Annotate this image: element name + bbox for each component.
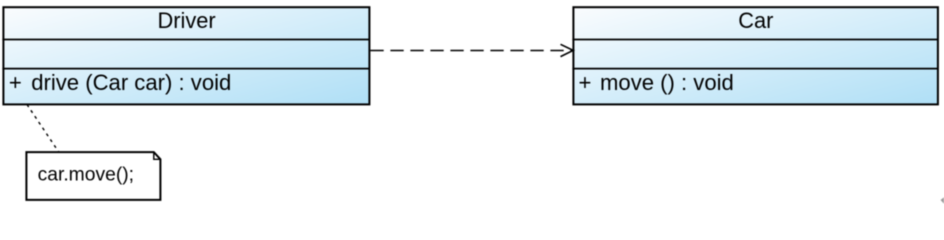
note corner fold flap bbox=[154, 152, 161, 159]
Car class body bbox=[573, 7, 938, 104]
class Car bbox=[572, 7, 938, 104]
Driver class body bbox=[3, 7, 369, 104]
svg-text:car.move();: car.move(); bbox=[38, 165, 134, 186]
svg-text:+: + bbox=[9, 70, 22, 95]
Driver name/attribute divider bbox=[2, 39, 369, 41]
svg-text:Car: Car bbox=[738, 8, 773, 33]
svg-text:drive (Car car) : void: drive (Car car) : void bbox=[31, 70, 231, 95]
svg-text:move () : void: move () : void bbox=[600, 70, 734, 95]
note anchor dotted line bbox=[27, 105, 59, 153]
dependency arrow Driver to Car bbox=[370, 44, 573, 56]
note body with folded corner bbox=[26, 152, 160, 200]
open arrowhead at Car bbox=[561, 44, 574, 56]
Driver attribute/operation divider bbox=[2, 68, 369, 70]
svg-text:Driver: Driver bbox=[158, 8, 216, 33]
note car.move(); bbox=[26, 152, 160, 200]
dashed dependency line bbox=[370, 50, 572, 52]
Car name/attribute divider bbox=[572, 39, 938, 41]
Car attribute/operation divider bbox=[572, 68, 938, 70]
stray cursor mark bottom right bbox=[941, 197, 944, 204]
class Driver bbox=[2, 7, 369, 104]
svg-text:+: + bbox=[579, 70, 592, 95]
